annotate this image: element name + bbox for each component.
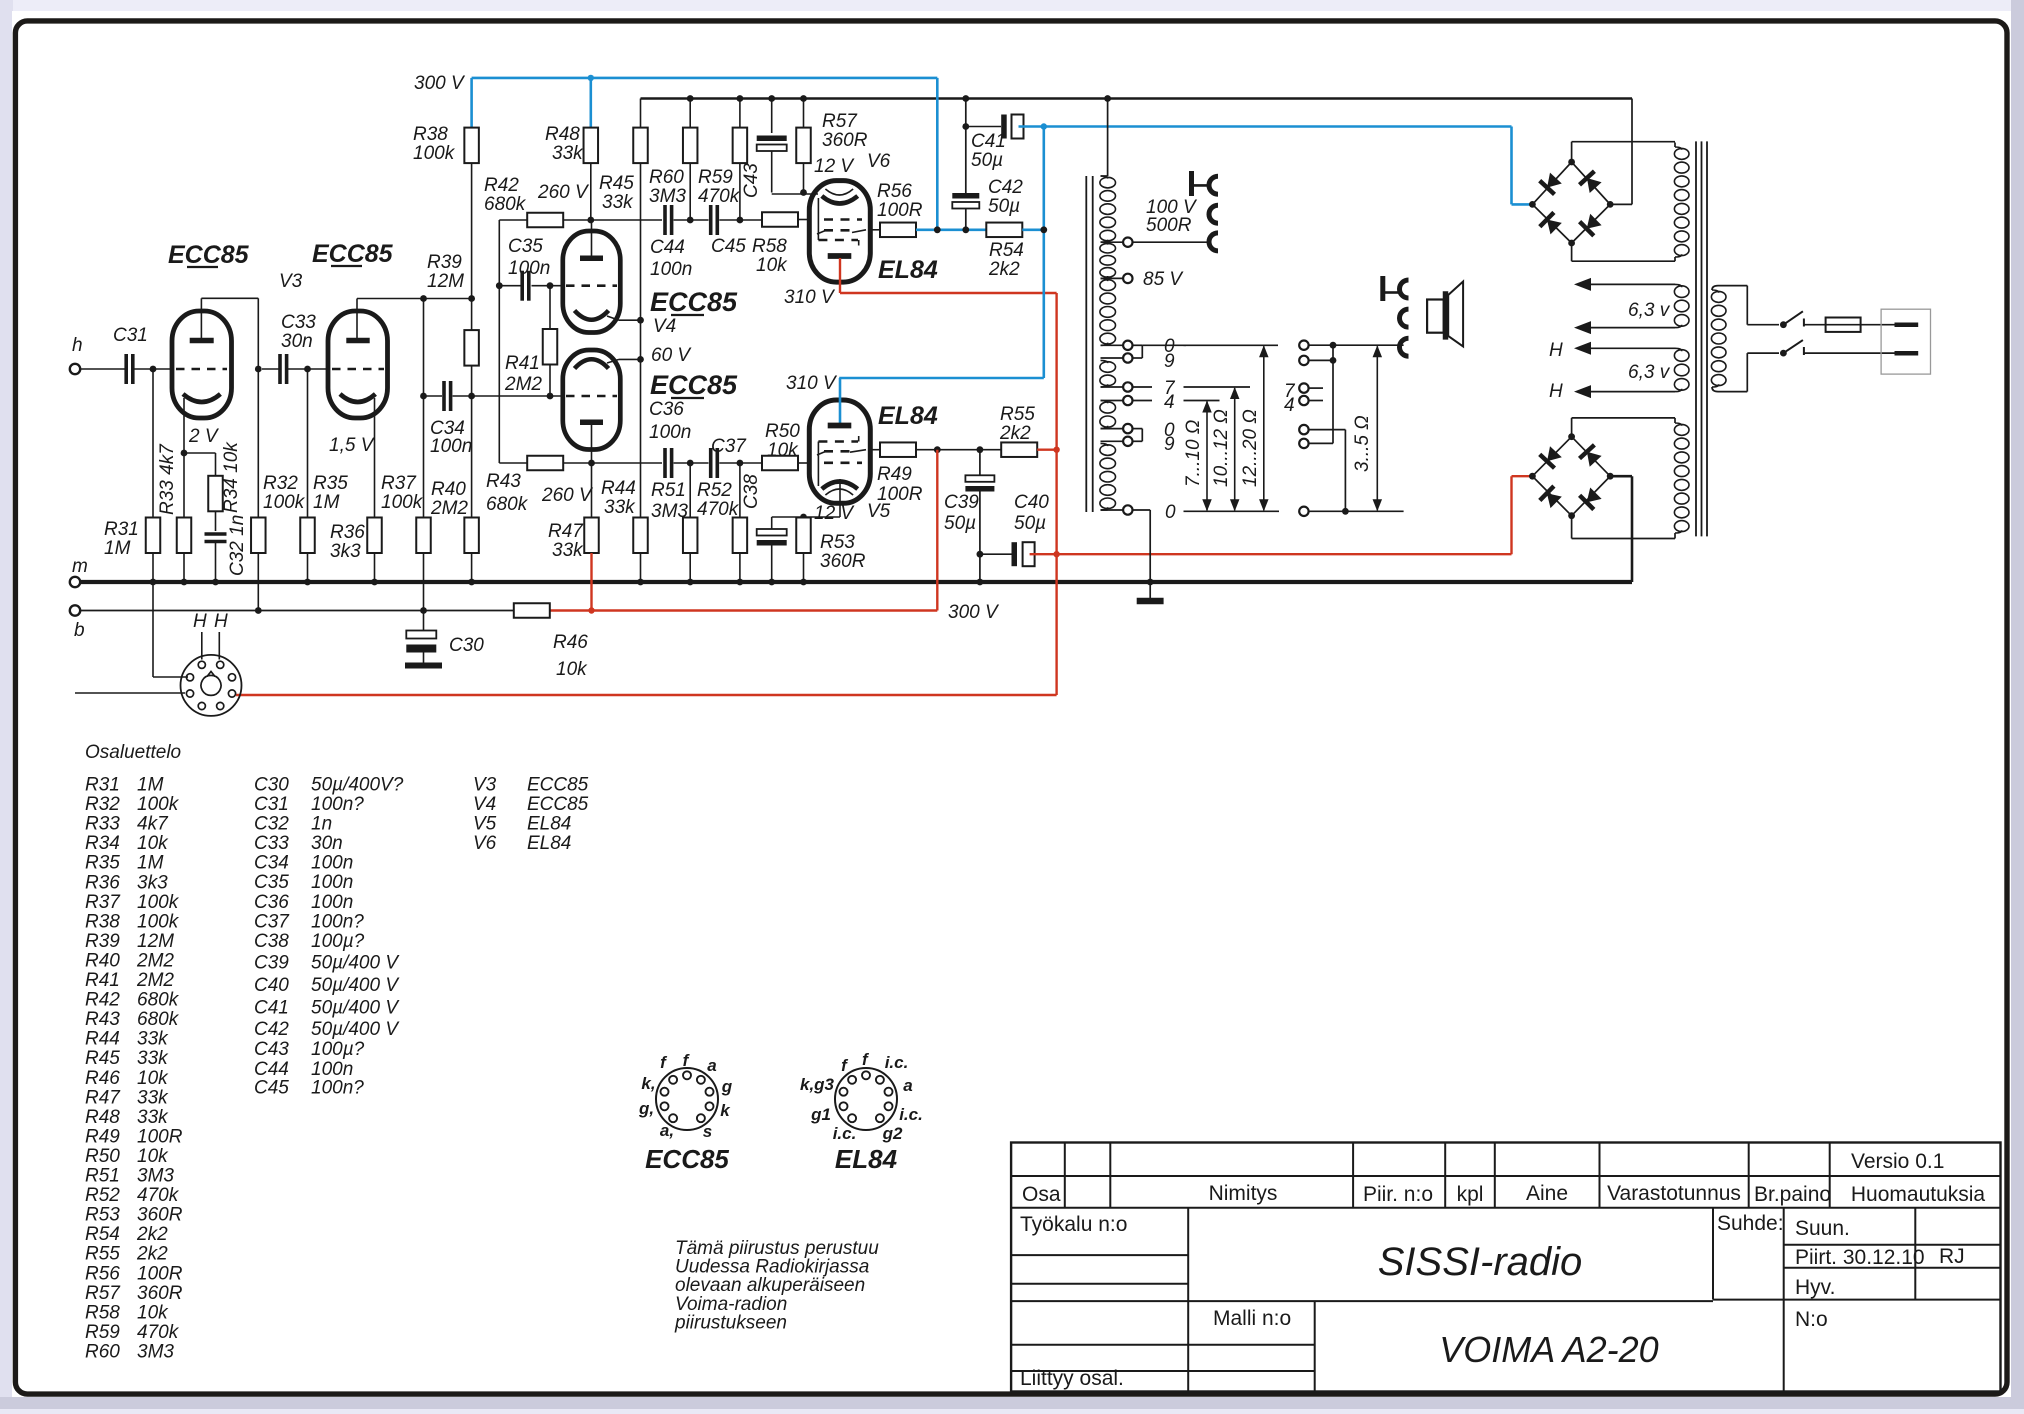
svg-text:500R: 500R	[1146, 215, 1192, 236]
tap 500R	[1101, 241, 1123, 243]
grid dashes V5	[818, 440, 858, 443]
svg-text:100n?: 100n?	[311, 911, 364, 932]
svg-text:H: H	[193, 611, 207, 632]
capacitor C44	[663, 205, 667, 235]
svg-text:R37: R37	[381, 473, 417, 494]
svg-text:C43: C43	[254, 1039, 289, 1060]
capacitor C38	[771, 517, 773, 529]
svg-text:680k: 680k	[486, 494, 529, 515]
svg-text:R56: R56	[877, 181, 912, 202]
svg-text:R59: R59	[698, 167, 733, 188]
svg-text:V6: V6	[473, 833, 497, 854]
svg-text:R55: R55	[1000, 404, 1035, 425]
svg-text:ECC85: ECC85	[168, 241, 250, 269]
cathode arc V5	[822, 482, 858, 490]
mains plug	[1881, 309, 1930, 374]
svg-text:2 V: 2 V	[188, 426, 220, 447]
svg-text:R48: R48	[545, 124, 580, 145]
svg-text:H: H	[214, 611, 228, 632]
svg-text:Huomautuksia: Huomautuksia	[1851, 1183, 1986, 1206]
svg-text:100µ?: 100µ?	[311, 1039, 365, 1060]
svg-text:12M: 12M	[427, 271, 464, 292]
resistor R53	[803, 516, 805, 519]
svg-text:9: 9	[1164, 351, 1175, 372]
resistor R32	[257, 369, 259, 518]
resistor R47	[591, 463, 593, 518]
svg-text:EL84: EL84	[527, 833, 571, 854]
resistor R38	[464, 128, 479, 164]
power transformer core	[1695, 141, 1697, 536]
svg-text:EL84: EL84	[878, 402, 938, 430]
tube V5 (EL84)	[809, 400, 870, 503]
lower HT winding	[1674, 424, 1689, 435]
svg-text:260 V: 260 V	[537, 182, 590, 203]
svg-text:R36: R36	[330, 522, 365, 543]
svg-text:100k: 100k	[137, 794, 180, 815]
resistor R48	[584, 128, 599, 164]
resistor R40	[464, 518, 479, 554]
svg-text:C37: C37	[711, 436, 747, 457]
svg-text:C41: C41	[254, 998, 289, 1019]
svg-text:2M2: 2M2	[504, 374, 542, 395]
svg-text:C39: C39	[254, 953, 289, 974]
red wire C40 to lower bridge	[1030, 553, 1512, 555]
svg-text:R41: R41	[505, 353, 540, 374]
mains primary winding	[1711, 291, 1726, 302]
svg-text:6,3 v: 6,3 v	[1628, 362, 1671, 383]
capacitor C32	[205, 532, 227, 535]
svg-text:R31: R31	[104, 519, 139, 540]
grid dashes V3a	[176, 368, 227, 371]
svg-text:R46: R46	[553, 632, 588, 653]
pinout ECC85	[656, 1068, 718, 1130]
svg-text:Osaluettelo: Osaluettelo	[85, 742, 181, 763]
svg-text:R33: R33	[85, 814, 120, 835]
svg-text:g2: g2	[882, 1124, 903, 1143]
svg-text:12 V: 12 V	[814, 503, 855, 524]
svg-text:V6: V6	[867, 151, 891, 172]
svg-text:s: s	[703, 1122, 712, 1141]
resistor R50	[762, 456, 798, 471]
svg-text:R53: R53	[85, 1205, 120, 1226]
m rail	[75, 580, 1632, 584]
svg-text:C31: C31	[254, 794, 289, 815]
svg-text:1M: 1M	[313, 492, 340, 513]
svg-text:680k: 680k	[484, 194, 527, 215]
output transformer winding	[1100, 177, 1116, 188]
svg-text:k,: k,	[641, 1074, 655, 1093]
svg-text:R47: R47	[85, 1087, 121, 1108]
grid dashes V3b	[332, 368, 384, 371]
svg-text:310 V: 310 V	[784, 287, 836, 308]
svg-text:Piir. n:o: Piir. n:o	[1363, 1183, 1433, 1206]
svg-text:C31: C31	[113, 325, 148, 346]
svg-text:100k: 100k	[263, 492, 306, 513]
svg-text:R45: R45	[85, 1048, 120, 1069]
svg-text:4: 4	[1284, 395, 1295, 416]
resistor R31	[152, 369, 154, 518]
speaker	[1427, 300, 1444, 333]
svg-text:33k: 33k	[137, 1087, 169, 1108]
svg-text:a,: a,	[660, 1121, 674, 1140]
svg-text:Varastotunnus: Varastotunnus	[1607, 1182, 1741, 1205]
output transformer core	[1085, 176, 1087, 512]
svg-text:V3: V3	[473, 775, 497, 796]
svg-text:2M2: 2M2	[136, 950, 174, 971]
svg-text:Hyv.: Hyv.	[1795, 1276, 1835, 1299]
svg-text:300 V: 300 V	[948, 602, 1000, 623]
wire R31 column to socket	[152, 582, 154, 677]
tube socket V3	[181, 655, 242, 716]
wire to R34	[184, 452, 216, 454]
svg-text:C30: C30	[449, 635, 484, 656]
svg-text:R44: R44	[85, 1029, 120, 1050]
resistor R51	[689, 463, 691, 518]
capacitor C37	[709, 448, 713, 478]
svg-text:R38: R38	[413, 124, 448, 145]
svg-text:EL84: EL84	[527, 814, 571, 835]
svg-text:C30: C30	[254, 775, 289, 796]
svg-text:9: 9	[1164, 434, 1175, 455]
svg-text:SISSI-radio: SISSI-radio	[1378, 1240, 1583, 1284]
b rail	[75, 610, 514, 612]
svg-text:g1: g1	[810, 1105, 831, 1124]
pinout EL84	[835, 1068, 897, 1130]
svg-text:50µ: 50µ	[971, 150, 1003, 171]
svg-text:C40: C40	[254, 975, 289, 996]
anode red lead V6 / 310V	[839, 258, 841, 293]
svg-text:10k: 10k	[137, 1146, 169, 1167]
capacitor C42	[952, 193, 979, 199]
svg-text:10k: 10k	[137, 1302, 169, 1323]
top bus	[641, 97, 1633, 100]
grid dashes V4b	[566, 395, 617, 398]
cathode lead V3b	[374, 398, 376, 518]
svg-text:3k3: 3k3	[137, 872, 168, 893]
svg-text:R60: R60	[649, 167, 684, 188]
svg-text:C43: C43	[741, 163, 762, 198]
svg-text:2k2: 2k2	[136, 1224, 168, 1245]
svg-text:60 V: 60 V	[651, 345, 692, 366]
svg-text:Työkalu n:o: Työkalu n:o	[1020, 1213, 1127, 1236]
svg-text:Suun.: Suun.	[1795, 1217, 1850, 1240]
heater arc V6	[825, 189, 853, 195]
tube V6 (EL84)	[809, 181, 870, 283]
resistor R42	[499, 219, 527, 221]
svg-text:33k: 33k	[137, 1048, 169, 1069]
svg-text:100n?: 100n?	[311, 1078, 364, 1099]
svg-text:N:o: N:o	[1795, 1308, 1828, 1331]
svg-text:R39: R39	[85, 931, 120, 952]
resistor R37	[416, 518, 431, 554]
svg-text:R36: R36	[85, 872, 120, 893]
svg-text:V4: V4	[473, 794, 496, 815]
svg-text:Osa: Osa	[1022, 1183, 1061, 1206]
svg-text:12...20 Ω: 12...20 Ω	[1240, 409, 1261, 487]
svg-text:EL84: EL84	[878, 256, 938, 284]
resistor R43	[499, 462, 527, 464]
svg-text:R42: R42	[85, 990, 120, 1011]
svg-text:6,3 v: 6,3 v	[1628, 300, 1671, 321]
svg-text:R44: R44	[601, 478, 636, 499]
svg-text:85 V: 85 V	[1143, 269, 1184, 290]
svg-text:680k: 680k	[137, 1009, 180, 1030]
svg-text:10k: 10k	[137, 1068, 169, 1089]
red heater line to socket	[236, 694, 1057, 696]
svg-text:C33: C33	[281, 312, 316, 333]
svg-text:V5: V5	[473, 814, 497, 835]
blue vertical to V5	[1043, 127, 1046, 379]
svg-text:100R: 100R	[877, 200, 923, 221]
svg-text:1n: 1n	[311, 814, 332, 835]
300V blue line	[472, 77, 938, 80]
capacitor C34	[424, 395, 443, 397]
svg-text:100µ?: 100µ?	[311, 931, 365, 952]
svg-text:360R: 360R	[137, 1283, 183, 1304]
svg-text:Br.paino: Br.paino	[1754, 1183, 1831, 1206]
cathode lead V5	[839, 479, 841, 517]
taps 0/9 lower	[1101, 428, 1123, 430]
svg-text:Malli n:o: Malli n:o	[1213, 1307, 1291, 1330]
svg-text:ECC85: ECC85	[312, 240, 394, 268]
svg-text:1M: 1M	[104, 538, 131, 559]
svg-text:100R: 100R	[877, 484, 923, 505]
terminal h	[70, 364, 80, 374]
svg-text:100n: 100n	[649, 422, 691, 443]
cathode arc V3a	[183, 394, 220, 402]
svg-text:R46: R46	[85, 1068, 120, 1089]
resistor R59	[739, 99, 741, 128]
svg-text:R57: R57	[85, 1283, 121, 1304]
capacitor C33	[278, 354, 282, 384]
svg-text:a: a	[903, 1076, 912, 1095]
lower bridge to m rail	[1610, 475, 1632, 478]
svg-text:C42: C42	[254, 1019, 289, 1040]
svg-text:1M: 1M	[137, 853, 164, 874]
svg-text:100n: 100n	[430, 436, 472, 457]
mains switch lower	[1746, 353, 1748, 392]
svg-text:EL84: EL84	[835, 1144, 898, 1174]
svg-text:10k: 10k	[137, 833, 169, 854]
svg-text:C45: C45	[711, 236, 746, 257]
svg-text:C38: C38	[741, 474, 762, 509]
svg-text:100k: 100k	[413, 143, 456, 164]
blue anode lead V5	[839, 378, 842, 424]
svg-text:360R: 360R	[822, 130, 868, 151]
blue line C41 to upper bridge	[1019, 125, 1512, 128]
svg-text:10k: 10k	[756, 255, 788, 276]
svg-text:680k: 680k	[137, 990, 180, 1011]
svg-text:C32 1n: C32 1n	[227, 515, 248, 576]
svg-text:ECC85: ECC85	[645, 1144, 729, 1174]
svg-text:i.c.: i.c.	[885, 1053, 909, 1072]
cathode arc V4a	[575, 311, 609, 320]
anode bar V3b	[346, 338, 369, 344]
svg-text:H: H	[1549, 340, 1563, 361]
svg-text:R58: R58	[752, 236, 787, 257]
svg-text:4k7: 4k7	[137, 814, 169, 835]
svg-text:C35: C35	[508, 236, 543, 257]
bus to upper bridge	[1631, 99, 1633, 205]
svg-text:50µ: 50µ	[1014, 513, 1046, 534]
svg-text:33k: 33k	[604, 497, 636, 518]
svg-text:33k: 33k	[137, 1107, 169, 1128]
svg-text:260 V: 260 V	[541, 485, 594, 506]
svg-text:VOIMA A2-20: VOIMA A2-20	[1439, 1329, 1658, 1370]
upper HT winding	[1674, 148, 1689, 159]
svg-text:R32: R32	[85, 794, 120, 815]
impedance arrows	[1206, 402, 1208, 511]
svg-text:R54: R54	[85, 1224, 120, 1245]
svg-text:50µ/400 V: 50µ/400 V	[311, 953, 400, 974]
svg-text:ECC85: ECC85	[650, 287, 738, 317]
svg-text:i.c.: i.c.	[833, 1124, 857, 1143]
svg-text:H: H	[1549, 381, 1563, 402]
svg-text:R43: R43	[486, 471, 521, 492]
terminal b	[70, 605, 80, 615]
resistor R39	[471, 299, 473, 331]
svg-text:ECC85: ECC85	[527, 775, 589, 796]
cathode lead V3a to R33	[183, 398, 185, 453]
svg-text:R55: R55	[85, 1244, 120, 1265]
svg-text:R53: R53	[820, 532, 855, 553]
svg-text:k,g3: k,g3	[800, 1075, 835, 1094]
svg-text:C36: C36	[649, 399, 684, 420]
left rail of V4 stage	[498, 220, 500, 463]
svg-text:ECC85: ECC85	[527, 794, 589, 815]
svg-text:50µ/400 V: 50µ/400 V	[311, 1019, 400, 1040]
svg-text:g,: g,	[638, 1099, 654, 1118]
red b-line 300V	[550, 609, 937, 611]
svg-text:Suhde:: Suhde:	[1717, 1212, 1784, 1235]
anode bar V3a	[190, 338, 214, 344]
cathode arc V4b	[575, 359, 609, 368]
svg-text:10k: 10k	[767, 440, 799, 461]
svg-text:R50: R50	[85, 1146, 120, 1167]
resistor R46	[514, 603, 550, 618]
resistor R57	[803, 99, 805, 128]
svg-text:2M2: 2M2	[430, 498, 468, 519]
svg-text:R58: R58	[85, 1302, 120, 1323]
svg-text:1,5 V: 1,5 V	[329, 435, 376, 456]
svg-text:C35: C35	[254, 872, 289, 893]
capacitor C41	[966, 126, 1001, 128]
tap 0 bottom	[1101, 509, 1123, 511]
svg-text:Aine: Aine	[1526, 1182, 1568, 1205]
svg-text:10k: 10k	[556, 659, 588, 680]
svg-text:C45: C45	[254, 1078, 289, 1099]
svg-text:33k: 33k	[552, 143, 584, 164]
svg-text:12 V: 12 V	[814, 156, 855, 177]
svg-text:R52: R52	[697, 480, 732, 501]
svg-text:C38: C38	[254, 931, 289, 952]
svg-text:2k2: 2k2	[988, 259, 1020, 280]
svg-text:R39: R39	[427, 252, 462, 273]
svg-text:360R: 360R	[137, 1205, 183, 1226]
svg-text:R56: R56	[85, 1263, 120, 1284]
svg-text:b: b	[74, 620, 85, 641]
tube V4 triode upper (ECC85)	[563, 231, 621, 333]
svg-text:470k: 470k	[698, 186, 741, 207]
capacitor C40	[980, 553, 1012, 555]
svg-text:R43: R43	[85, 1009, 120, 1030]
blue wire R56 to R54	[916, 229, 986, 232]
svg-text:R48: R48	[85, 1107, 120, 1128]
svg-text:50µ/400 V: 50µ/400 V	[311, 975, 400, 996]
100V line jack	[1189, 171, 1194, 196]
svg-text:30n: 30n	[311, 833, 343, 854]
svg-text:33k: 33k	[602, 192, 634, 213]
svg-text:1M: 1M	[137, 775, 164, 796]
svg-text:3...5 Ω: 3...5 Ω	[1352, 415, 1373, 472]
svg-text:R35: R35	[313, 473, 348, 494]
resistor R54	[986, 223, 1022, 238]
capacitor C39	[979, 450, 981, 476]
title block	[1011, 1143, 2000, 1392]
svg-text:12M: 12M	[137, 931, 174, 952]
svg-text:100k: 100k	[137, 892, 180, 913]
resistor R33	[183, 453, 185, 518]
svg-text:C36: C36	[254, 892, 289, 913]
svg-text:2k2: 2k2	[136, 1244, 168, 1265]
svg-text:R60: R60	[85, 1341, 120, 1362]
svg-text:100n?: 100n?	[311, 794, 364, 815]
grid dashes V6	[824, 218, 862, 221]
svg-text:470k: 470k	[137, 1322, 180, 1343]
svg-text:k: k	[720, 1101, 731, 1120]
svg-text:3M3: 3M3	[137, 1166, 174, 1187]
resistor R56	[872, 229, 880, 231]
svg-text:100k: 100k	[381, 492, 424, 513]
svg-text:100n: 100n	[311, 872, 353, 893]
upper bridge rectifier	[1571, 142, 1573, 162]
resistor R55	[1001, 442, 1037, 457]
svg-text:R51: R51	[651, 480, 686, 501]
svg-text:R41: R41	[85, 970, 120, 991]
svg-text:50µ: 50µ	[944, 513, 976, 534]
svg-text:C33: C33	[254, 833, 289, 854]
svg-text:a: a	[707, 1056, 716, 1075]
resistor R58	[762, 212, 798, 227]
svg-text:3k3: 3k3	[330, 541, 361, 562]
capacitor C35	[499, 285, 521, 287]
svg-text:3M3: 3M3	[137, 1341, 174, 1362]
svg-text:50µ/400 V: 50µ/400 V	[311, 998, 400, 1019]
g3 tie V5	[817, 442, 819, 487]
capacitor C30	[423, 611, 425, 632]
resistor R35	[307, 369, 309, 518]
anode bar V4a	[580, 255, 603, 261]
ground symbol	[1149, 582, 1151, 598]
svg-text:h: h	[72, 335, 83, 356]
capacitor C45	[709, 205, 713, 235]
svg-text:Versio 0.1: Versio 0.1	[1851, 1150, 1944, 1173]
resistor R34	[208, 476, 223, 512]
svg-text:R37: R37	[85, 892, 121, 913]
svg-text:R47: R47	[548, 521, 584, 542]
speaker jack	[1380, 276, 1385, 301]
svg-text:R40: R40	[431, 479, 466, 500]
svg-text:R51: R51	[85, 1166, 120, 1187]
cathode to g3 tie V6	[817, 198, 819, 240]
wire C31 to grid V3a	[133, 368, 172, 370]
svg-text:R59: R59	[85, 1322, 120, 1343]
resistor R60	[689, 99, 691, 128]
3...5 ohm arrow	[1376, 346, 1378, 510]
svg-text:V3: V3	[279, 271, 303, 292]
svg-text:R35: R35	[85, 853, 120, 874]
svg-text:2k2: 2k2	[999, 423, 1031, 444]
